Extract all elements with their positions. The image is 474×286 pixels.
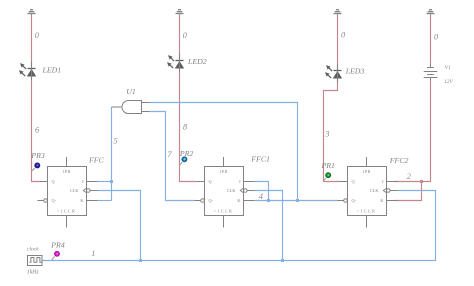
svg-text:PR2: PR2 <box>179 149 194 158</box>
svg-text:0: 0 <box>341 30 346 40</box>
svg-text:7: 7 <box>167 149 172 159</box>
junction node net4 left <box>267 199 270 202</box>
probe PR3 <box>32 163 40 171</box>
svg-text:LED2: LED2 <box>187 57 207 66</box>
svg-text:FFC: FFC <box>88 156 105 165</box>
battery V1 <box>424 63 438 81</box>
ground for LED3 column <box>334 10 342 14</box>
op-amp U1 AND gate mirrored <box>122 101 141 114</box>
U1 output stub <box>112 106 123 108</box>
wire net 1 clock bottom run <box>42 191 436 261</box>
svg-text:LED1: LED1 <box>42 65 62 74</box>
wire net 8 LED2 column to FFC1 Q <box>180 14 197 182</box>
wire net 6 LED1 column to FFC Q <box>32 14 40 182</box>
svg-text:0: 0 <box>434 32 439 42</box>
flip-flop FFC1 <box>195 157 255 228</box>
svg-text:0: 0 <box>183 30 188 40</box>
U1 input B stub <box>142 111 150 113</box>
junction node net1 at FFC1 branch <box>281 259 284 262</box>
LED LED2 <box>167 54 184 73</box>
junction node net1 at FFC branch <box>139 259 142 262</box>
ground for LED2 column <box>176 10 184 14</box>
svg-text:6: 6 <box>35 125 40 135</box>
wire net 2 junction down to FFC2 K <box>394 182 422 201</box>
wire net 4 FFC1 J down link <box>255 182 269 201</box>
svg-text:1: 1 <box>91 248 95 258</box>
svg-text:PR1: PR1 <box>321 161 336 170</box>
LED LED1 <box>19 62 36 81</box>
wire net 4 up to U1 input A <box>150 103 298 201</box>
svg-text:clock: clock <box>27 246 39 252</box>
wire net 3 LED3 column to FFC2 Q <box>324 14 340 182</box>
probe PR2 <box>180 157 187 165</box>
svg-text:0: 0 <box>35 30 40 40</box>
wire net 1 FFC1 CLK branch <box>255 191 283 261</box>
svg-text:LED3: LED3 <box>345 67 365 76</box>
wire net 5 FFC K stub link <box>98 200 112 202</box>
ground for LED1 column <box>28 10 36 14</box>
U1 input A stub <box>142 102 150 104</box>
wire net 2 battery column lower to junction <box>422 81 431 181</box>
wire net 2 FFC2 J to junction <box>394 181 422 183</box>
probe PR1 <box>324 173 331 181</box>
svg-text:FFC2: FFC2 <box>389 156 409 165</box>
svg-text:FFC1: FFC1 <box>250 155 270 164</box>
junction node net2 <box>420 180 423 183</box>
svg-text:8: 8 <box>183 122 188 132</box>
svg-text:5: 5 <box>113 135 117 145</box>
wire net 7 FFC1 ~Q to U1 input B <box>150 112 195 201</box>
svg-text:4: 4 <box>259 191 264 201</box>
svg-text:3: 3 <box>324 129 329 139</box>
probe PR4 <box>52 252 60 260</box>
svg-text:PR4: PR4 <box>50 240 65 249</box>
wire net 1 FFC CLK branch <box>98 191 141 261</box>
svg-text:U1: U1 <box>126 87 136 96</box>
flip-flop FFC <box>38 157 98 228</box>
svg-text:12V: 12V <box>444 79 453 85</box>
svg-text:1kHz: 1kHz <box>27 269 40 275</box>
svg-text:V1: V1 <box>445 65 451 71</box>
junction node net4 right <box>296 199 299 202</box>
LED LED3 <box>325 64 342 83</box>
svg-text:2: 2 <box>407 171 412 181</box>
wire net 2 battery column upper <box>430 14 432 64</box>
clock source <box>28 256 43 266</box>
junction node net5 <box>110 180 113 183</box>
flip-flop FFC2 <box>338 157 398 228</box>
wire net 5 FFC J stub link <box>98 181 112 183</box>
wire net 4 horizontal run FFC1 K to FFC2 ~Q <box>255 200 339 202</box>
wire net 5 U1 output down to FFC J and K <box>111 107 113 201</box>
ground for battery column <box>427 10 435 14</box>
svg-text:PR3: PR3 <box>30 151 45 160</box>
